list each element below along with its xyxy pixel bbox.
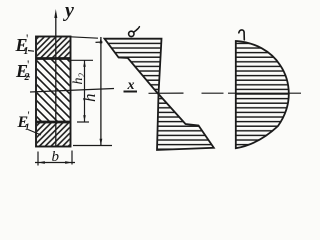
dimension h line <box>100 37 103 146</box>
sigma diagram bottom polygon <box>157 94 214 150</box>
svg-text:': ' <box>26 31 28 46</box>
dimension h2: extension lines <box>71 59 94 61</box>
x axis dash-dot segments <box>149 92 184 94</box>
small tick on dimension h line <box>96 41 103 43</box>
interface line 2 <box>36 121 71 124</box>
svg-text:b: b <box>52 149 60 165</box>
dimension h: extension lines <box>71 37 99 38</box>
label E1' top <box>15 31 35 57</box>
dimension b <box>35 151 75 166</box>
sigma diagram top polygon <box>105 39 162 95</box>
tau diagram (г) shape <box>236 41 289 148</box>
svg-text:y: y <box>63 0 74 22</box>
svg-text:h: h <box>80 94 99 103</box>
x axis dash under label <box>124 91 138 93</box>
svg-text:': ' <box>27 57 29 72</box>
layer 3 hatch (bottom, E1') <box>37 122 70 146</box>
interface line 1 <box>36 57 71 60</box>
cross-section rectangle <box>36 37 71 147</box>
dimension h2 line <box>83 61 86 122</box>
neutral axis across section <box>30 89 114 93</box>
svg-text:1: 1 <box>24 46 29 57</box>
label h2 (rotated) <box>71 73 87 85</box>
label E1' bottom <box>17 108 42 135</box>
svg-text:2: 2 <box>77 73 87 78</box>
label г <box>239 30 245 40</box>
layer 2 hatch (middle, E2') <box>37 59 70 123</box>
svg-text:h: h <box>71 78 86 85</box>
label E2' <box>15 57 30 83</box>
label sigma (б) <box>129 31 134 36</box>
svg-text:': ' <box>28 108 30 122</box>
layer 1 hatch (top, E1') <box>37 38 70 59</box>
svg-text:2: 2 <box>24 72 30 83</box>
y axis <box>54 9 57 146</box>
